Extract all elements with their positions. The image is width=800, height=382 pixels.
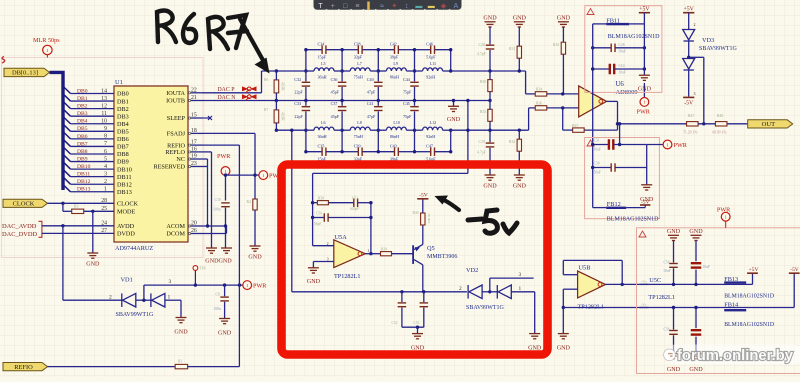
bus entry DB12 xyxy=(64,178,71,185)
svg-text:C37: C37 xyxy=(331,101,338,106)
room border FB11 xyxy=(585,6,662,93)
junction CLOCK xyxy=(61,202,64,205)
wire lower path 1b xyxy=(370,129,378,131)
svg-text:A: A xyxy=(453,3,458,10)
svg-text:TP1282L1: TP1282L1 xyxy=(334,273,360,280)
svg-text:BLM18AG102SN1D: BLM18AG102SN1D xyxy=(724,322,774,328)
svg-text:L8: L8 xyxy=(357,120,362,125)
svg-text:C39: C39 xyxy=(354,143,361,148)
wire R32 bottom xyxy=(518,151,520,175)
svg-text:GND: GND xyxy=(447,117,461,123)
svg-text:L6: L6 xyxy=(321,120,326,125)
wire lower path left xyxy=(276,129,306,131)
wire -5V rise xyxy=(793,273,795,307)
capacitor C51 xyxy=(354,198,358,207)
wire C55 top xyxy=(695,241,697,262)
wire upper path 3a xyxy=(415,70,423,72)
junction mid rail 2 xyxy=(377,99,380,102)
svg-text:50nF: 50nF xyxy=(594,171,601,175)
svg-text:C46: C46 xyxy=(426,41,433,46)
wire gnd to R35 xyxy=(562,27,564,42)
svg-text:DB0: DB0 xyxy=(77,88,88,94)
svg-text:IOUTA: IOUTA xyxy=(166,90,185,97)
svg-text:33pF: 33pF xyxy=(354,54,363,59)
svg-text:≡: ≡ xyxy=(355,3,359,10)
svg-text:GND: GND xyxy=(557,16,571,22)
svg-text:R39: R39 xyxy=(381,247,387,251)
junction C9 xyxy=(223,283,226,286)
capacitor C10 xyxy=(221,203,230,207)
wire gnd run right xyxy=(563,307,648,309)
wire fb right vert xyxy=(370,203,372,254)
svg-text:13: 13 xyxy=(101,96,107,102)
ground FB11 xyxy=(639,75,650,80)
power marker PWR FB12 xyxy=(663,140,672,149)
wire U5A top run xyxy=(313,172,468,174)
svg-text:GND: GND xyxy=(86,262,100,268)
svg-text:ACOM: ACOM xyxy=(166,223,185,230)
svg-text:L5: L5 xyxy=(321,61,326,66)
wire lower path 0b xyxy=(334,129,342,131)
svg-text:VD2: VD2 xyxy=(466,267,478,274)
svg-text:C36: C36 xyxy=(331,77,338,82)
junction bottom rail 2 xyxy=(377,150,380,153)
svg-text:75nH: 75nH xyxy=(354,75,363,80)
junction upper path 0 xyxy=(304,69,307,72)
svg-text:DCOM: DCOM xyxy=(166,231,185,238)
svg-text:GND: GND xyxy=(513,184,527,190)
wire VD3 mid down xyxy=(703,57,705,124)
wire lower path 2a xyxy=(378,129,386,131)
svg-text:C47: C47 xyxy=(426,143,433,148)
svg-text:45pF: 45pF xyxy=(331,90,340,95)
wire MODE right xyxy=(84,210,114,212)
wire MODE to GND xyxy=(92,211,94,253)
wire U5A out xyxy=(365,253,380,255)
wire FSADJ down xyxy=(254,133,256,199)
wire U5B minus xyxy=(563,274,577,276)
svg-text:forum.onliner.by: forum.onliner.by xyxy=(677,348,794,364)
svg-text:PWR: PWR xyxy=(637,108,651,115)
junction 291 low xyxy=(290,129,293,132)
svg-text:100n: 100n xyxy=(214,307,222,311)
capacitor C55 xyxy=(691,263,702,267)
wire DB4 xyxy=(71,123,115,125)
junction ACOM b xyxy=(224,224,227,227)
junction mid rail 1 xyxy=(340,99,343,102)
wire VD1 pin1 down xyxy=(180,300,182,317)
bus entry DB9 xyxy=(64,155,71,162)
wire IOUTA xyxy=(203,92,262,94)
wire bottom rail 1b xyxy=(362,151,378,153)
wire AVDD xyxy=(42,225,114,227)
svg-text:DB13: DB13 xyxy=(77,187,91,193)
wire mid rail xyxy=(276,100,490,102)
port REFIO xyxy=(3,363,48,371)
toolbar tick 2 xyxy=(350,9,352,11)
wire bottom rail 3a xyxy=(415,151,431,153)
junction minus input xyxy=(561,106,564,109)
junction bottom rail 3 xyxy=(413,150,416,153)
wire DB9 xyxy=(71,161,115,163)
inductor L10 xyxy=(386,127,406,130)
svg-text:DB1: DB1 xyxy=(77,96,88,102)
wire FB12 cap1 left xyxy=(593,144,609,146)
svg-text:75pF: 75pF xyxy=(403,114,412,119)
ground FSADJ xyxy=(250,246,261,251)
svg-text:+5V: +5V xyxy=(684,7,695,13)
svg-text:75nH: 75nH xyxy=(354,134,363,139)
resistor R7 xyxy=(274,110,279,123)
resistor R47 xyxy=(687,122,699,126)
wire DB8 xyxy=(71,153,115,155)
wire CLOCK xyxy=(48,202,115,204)
junction TP4 xyxy=(194,283,197,286)
wire R34 left xyxy=(526,93,536,95)
svg-text:C32: C32 xyxy=(294,77,301,82)
wire bottom rail 2b xyxy=(399,151,415,153)
svg-text:C33: C33 xyxy=(294,101,301,106)
wire U5A bottom run xyxy=(292,291,467,293)
junction top rail 3 xyxy=(413,48,416,51)
wire MODE left xyxy=(63,210,72,212)
wire lower path right xyxy=(451,129,529,131)
wire C52 top xyxy=(401,292,403,302)
svg-text:DB13: DB13 xyxy=(117,189,132,196)
bus entry DB13 xyxy=(64,185,71,192)
svg-text:8: 8 xyxy=(104,134,107,140)
annotation handwritten 6 xyxy=(183,14,196,43)
annotation handwritten minus xyxy=(468,219,482,220)
svg-text:FB14: FB14 xyxy=(724,301,739,308)
wire REFIO pin xyxy=(203,144,239,146)
toolbar tick 5 xyxy=(387,9,389,11)
svg-text:PWR: PWR xyxy=(217,153,231,160)
wire C44 top xyxy=(414,71,416,81)
wire botrail rise 3 xyxy=(414,130,416,152)
wire R7 top xyxy=(275,101,277,110)
toolbar tick 1 xyxy=(338,9,340,11)
toolbar tick 7 xyxy=(412,9,414,11)
wire R40 top xyxy=(422,199,424,213)
wire bottom rail 2a xyxy=(378,151,394,153)
toolbar tick 0 xyxy=(326,9,328,11)
svg-text:CLOCK: CLOCK xyxy=(13,201,35,208)
junction mid rail 0 xyxy=(304,99,307,102)
svg-text:U5A: U5A xyxy=(335,234,348,241)
wire VD2 mid a xyxy=(482,291,497,293)
svg-text:1: 1 xyxy=(368,249,370,253)
wire R30 top xyxy=(489,71,491,80)
junction lower path 4 xyxy=(449,129,452,132)
svg-text:2: 2 xyxy=(109,294,112,300)
wire C9 bottom xyxy=(224,302,226,319)
wire C55 bottom xyxy=(695,270,697,285)
svg-text:620pF: 620pF xyxy=(350,207,359,211)
wire DB2 xyxy=(71,108,115,110)
wire upper path 3b xyxy=(443,70,451,72)
svg-text:9: 9 xyxy=(104,126,107,132)
wire lower path 0a xyxy=(306,129,314,131)
ground ACOM xyxy=(221,248,232,253)
op-amp U6 AD8009 output dot xyxy=(599,100,603,104)
junction upper 519 xyxy=(518,69,521,72)
svg-text:DB5: DB5 xyxy=(117,129,129,136)
junction plus input xyxy=(561,92,564,95)
diode VD3 A xyxy=(683,30,695,42)
junction FB12 tap2 xyxy=(618,143,621,146)
wire PWR net xyxy=(144,284,243,286)
resistor R37 xyxy=(573,128,585,132)
wire gnd to C28 xyxy=(489,27,491,44)
diode VD1 A xyxy=(122,293,136,307)
toolbar tick 9 xyxy=(436,9,438,11)
power -5V VD3 xyxy=(683,96,694,98)
junction top rail 2 xyxy=(377,48,380,51)
wire C45 bottom xyxy=(414,111,416,130)
ground C57 xyxy=(691,354,702,359)
wire VD3 top xyxy=(688,13,690,30)
wire NC stub xyxy=(203,158,208,160)
power -5V Q5 xyxy=(417,198,428,200)
junction REFIO vert xyxy=(238,283,241,286)
svg-text:R38: R38 xyxy=(318,196,324,200)
junction lower path 2 xyxy=(377,129,380,132)
svg-text:C30: C30 xyxy=(594,162,600,166)
svg-text:R7: R7 xyxy=(264,108,269,112)
wire FB11 cap1 right xyxy=(615,47,644,49)
capacitor C46 xyxy=(431,45,435,54)
wire FB11 cap1 left xyxy=(593,47,612,49)
svg-text:DB6: DB6 xyxy=(77,134,88,140)
wire lower to R36 xyxy=(528,108,530,130)
wire R34 right xyxy=(547,93,579,95)
junction out line xyxy=(616,122,619,125)
wire C54 bottom xyxy=(673,268,675,284)
capacitor C28 xyxy=(486,45,495,49)
wire VD2 pin1 down xyxy=(534,292,536,334)
wire U5B loop top xyxy=(563,259,622,261)
svg-text:92nH: 92nH xyxy=(426,75,435,80)
svg-text:BLM18AG102SN1D: BLM18AG102SN1D xyxy=(607,216,659,222)
svg-text:47pF: 47pF xyxy=(367,114,376,119)
svg-text:REFIO: REFIO xyxy=(14,364,33,371)
svg-text:92nH: 92nH xyxy=(426,134,435,139)
junction C56 xyxy=(672,306,675,309)
wire VD2 pin3 right xyxy=(490,277,534,279)
ground U5B xyxy=(558,334,569,339)
capacitor C9 xyxy=(220,297,229,301)
wire FB11 right xyxy=(629,23,644,25)
svg-text:1: 1 xyxy=(168,294,171,300)
svg-text:U5C: U5C xyxy=(649,277,661,284)
junction FB11 c1r xyxy=(643,46,646,49)
svg-text:≈: ≈ xyxy=(380,3,384,10)
svg-text:C56: C56 xyxy=(664,328,670,332)
svg-text:▌: ▌ xyxy=(367,1,372,11)
svg-text:VD3: VD3 xyxy=(702,37,714,44)
pin stub ACOM xyxy=(188,225,203,227)
svg-text:DB6: DB6 xyxy=(117,136,129,143)
capacitor C14 xyxy=(610,64,614,75)
wire REFLO down xyxy=(211,152,213,248)
toolbar tick 3 xyxy=(363,9,365,11)
capacitor C38 xyxy=(358,45,362,54)
svg-text:1: 1 xyxy=(519,286,522,292)
svg-text:NC: NC xyxy=(176,156,185,163)
junction Q5 col xyxy=(422,290,425,293)
room marker FB12 xyxy=(587,140,594,146)
svg-text:GND: GND xyxy=(638,87,652,93)
capacitor C34 xyxy=(322,45,326,54)
wire -5V stem FB12 xyxy=(644,205,646,208)
svg-text:RESERVED: RESERVED xyxy=(154,164,186,171)
svg-text:DB4: DB4 xyxy=(77,119,88,125)
svg-text:C31: C31 xyxy=(594,139,600,143)
resistor R1 xyxy=(175,364,188,368)
wire C44 bottom xyxy=(414,87,416,101)
power marker PWR3 xyxy=(243,281,252,290)
pin stub IOUTB xyxy=(188,100,203,102)
ground VD1 xyxy=(176,318,187,323)
wire toprail drop 2 xyxy=(377,50,379,71)
resistor R35 xyxy=(561,42,565,54)
svg-text:+5V: +5V xyxy=(639,7,650,13)
svg-text:L11: L11 xyxy=(430,61,436,66)
port OUT xyxy=(748,120,793,128)
svg-text:10uF: 10uF xyxy=(619,71,626,75)
toolbar tick 11 xyxy=(461,9,463,11)
junction C54 xyxy=(672,283,675,286)
pin stub DCOM xyxy=(188,233,203,235)
port bracket xyxy=(39,221,42,237)
ferrite bead FB11 xyxy=(606,23,629,25)
junction FB12 c2l xyxy=(591,166,594,169)
wire REFIO vertical xyxy=(238,145,240,367)
wire U5B plus down xyxy=(562,289,564,307)
wire FB12 gnd vert xyxy=(646,145,648,185)
annotation handwritten R xyxy=(157,11,176,42)
transistor Q5 emitter xyxy=(414,244,423,249)
op-amp U6 AD8009 xyxy=(579,86,607,117)
bus entry DB3 xyxy=(64,110,71,117)
resistor R48 xyxy=(715,122,727,126)
no connect SLEEP xyxy=(203,116,212,120)
svg-text:C42: C42 xyxy=(390,41,397,46)
svg-text:L7: L7 xyxy=(357,61,362,66)
wire out c xyxy=(727,123,748,125)
wire C40 top xyxy=(377,71,379,81)
pin stub U5C -Vs xyxy=(640,307,649,309)
wire DCOM join xyxy=(226,226,228,234)
wire feedback R37 left xyxy=(563,129,573,131)
wire upper path 2b xyxy=(406,70,414,72)
bus entry DB0 xyxy=(64,87,71,94)
pin stub REFIO xyxy=(188,144,203,146)
svg-text:DB8: DB8 xyxy=(77,149,88,155)
net tie marker circle xyxy=(43,45,52,57)
svg-text:GND: GND xyxy=(513,16,527,22)
svg-text:C53: C53 xyxy=(413,321,419,325)
wire C56 bottom xyxy=(673,335,675,353)
ground REFLO xyxy=(206,248,217,253)
wire R32 top xyxy=(518,130,520,139)
capacitor C44 xyxy=(410,82,419,86)
ground FB12 xyxy=(641,185,652,190)
svg-text:+: + xyxy=(331,3,335,10)
wire upper path 1b xyxy=(370,70,378,72)
svg-text:DB12: DB12 xyxy=(117,181,132,188)
svg-text:R32: R32 xyxy=(509,140,515,144)
wire FB11 left vertical xyxy=(592,24,594,208)
junction U5B gnd xyxy=(562,306,565,309)
bus entry DB11 xyxy=(64,170,71,177)
junction top rail 4 xyxy=(449,48,452,51)
bus entry DB7 xyxy=(64,140,71,147)
wire R38-C51 xyxy=(329,202,354,204)
bus from port to U1 xyxy=(50,72,64,190)
capacitor C42 xyxy=(395,45,399,54)
junction FB11 c2r xyxy=(643,67,646,70)
svg-text:REFLO: REFLO xyxy=(165,149,185,156)
svg-text:GND: GND xyxy=(689,367,703,373)
port CLOCK xyxy=(3,199,48,207)
svg-text:PWR: PWR xyxy=(674,142,688,149)
wire C5x join xyxy=(402,326,424,328)
toolbar tick 10 xyxy=(449,9,451,11)
wire DB7 xyxy=(71,145,115,147)
junction lower path 0 xyxy=(304,129,307,132)
junction 467 mid xyxy=(466,99,469,102)
power marker PWR4 xyxy=(640,98,649,107)
svg-text:C35: C35 xyxy=(318,143,325,148)
capacitor C50 xyxy=(324,213,328,222)
svg-text:OUT: OUT xyxy=(762,121,776,128)
wire FB12 cap1 right xyxy=(613,144,646,146)
svg-text:C52: C52 xyxy=(392,321,398,325)
svg-text:36nH: 36nH xyxy=(318,134,327,139)
junction VD2 mid xyxy=(488,290,491,293)
svg-text:MODE: MODE xyxy=(117,209,135,216)
wire C40 bottom xyxy=(377,87,379,101)
wire R6 bottom xyxy=(275,93,277,101)
wire upper path 0a xyxy=(306,70,314,72)
annotation arrow to R6R7 xyxy=(240,19,270,74)
svg-text:SLEEP: SLEEP xyxy=(167,115,186,122)
wire IOUTB xyxy=(203,100,276,102)
bus entry DB8 xyxy=(64,147,71,154)
svg-text:C43: C43 xyxy=(390,143,397,148)
junction upper path 1 xyxy=(340,69,343,72)
pin stub NC xyxy=(188,158,203,160)
pin dot RESERVED xyxy=(189,165,191,167)
wire FB11 cap2 left xyxy=(593,68,610,70)
pin dot IOUTA xyxy=(189,92,191,94)
ground top x563 xyxy=(558,22,569,27)
capacitor C52 xyxy=(398,303,407,307)
wire R36 left xyxy=(529,107,536,109)
junction fb upper xyxy=(311,201,314,204)
transistor Q5 collector xyxy=(414,260,423,265)
differential pair marker P xyxy=(242,86,257,92)
svg-text:MLR 50ps: MLR 50ps xyxy=(33,37,60,44)
junction bottom rail 1 xyxy=(340,150,343,153)
wire VD1 mid a xyxy=(136,299,151,301)
svg-text:AVDD: AVDD xyxy=(117,223,135,230)
diode VD2 B xyxy=(497,285,511,299)
wire DB0 xyxy=(71,93,115,95)
svg-text:R33: R33 xyxy=(480,110,486,114)
